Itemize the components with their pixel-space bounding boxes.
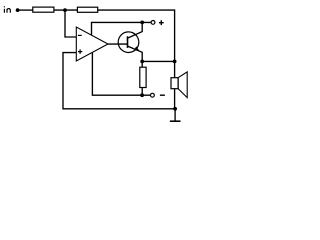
- wire R2 to right feedback rail down to emitter node: [98, 10, 175, 61]
- speaker LS1 cone: [178, 72, 187, 98]
- wire node A down to op-amp inverting input: [65, 10, 76, 37]
- op-amp minus sign (inverting input): [78, 34, 82, 36]
- Q1 collector to junction dot: [128, 22, 142, 38]
- emitter node junction dot: [140, 60, 144, 64]
- wire emitter node to right rail: [142, 60, 174, 62]
- junction dot collector / positive rail: [140, 21, 144, 25]
- "-" output terminal circle: [151, 93, 155, 97]
- resistor R1: [33, 7, 54, 12]
- junction dot right rail / speaker top: [173, 60, 177, 64]
- Q1 emitter diagonal and down to emitter node: [128, 46, 142, 61]
- "+" output terminal circle: [151, 21, 155, 25]
- "+" terminal plus sign: [159, 20, 164, 25]
- input label "in": [4, 6, 10, 13]
- node A junction dot: [63, 8, 67, 12]
- junction dot R3 / negative rail: [140, 93, 144, 97]
- Q1 base bar: [127, 36, 129, 48]
- transistor Q1 circle: [118, 32, 139, 53]
- input terminal dot: [16, 8, 20, 12]
- resistor R2: [77, 7, 97, 12]
- wire right rail junction down to speaker: [174, 61, 176, 77]
- speaker LS1 box: [171, 78, 178, 89]
- Q1 emitter arrowhead: [134, 46, 139, 51]
- wire R1 to R2 through node A: [54, 9, 78, 11]
- wire op-amp V- pin down to negative rail and to - terminal: [92, 53, 150, 96]
- ground: [170, 120, 181, 122]
- wire op-amp V+ pin up to positive supply rail and to + terminal: [92, 22, 151, 35]
- wire input terminal to R1: [18, 9, 33, 11]
- op-amp plus sign (non-inverting input): [78, 49, 82, 54]
- "-" terminal minus sign: [160, 94, 165, 96]
- op-amp U1: [76, 27, 108, 61]
- resistor R3: [140, 67, 146, 87]
- wire emitter node down to R3: [141, 61, 143, 67]
- wire junction to ground symbol: [174, 109, 176, 121]
- wire non-inverting input to bottom ground rail: [63, 53, 175, 109]
- wire op-amp output to Q1 base: [108, 43, 127, 45]
- wire speaker bottom to ground rail: [174, 89, 176, 109]
- wire R3 bottom to negative rail junction: [141, 88, 143, 96]
- junction dot bottom rail / ground: [173, 107, 177, 111]
